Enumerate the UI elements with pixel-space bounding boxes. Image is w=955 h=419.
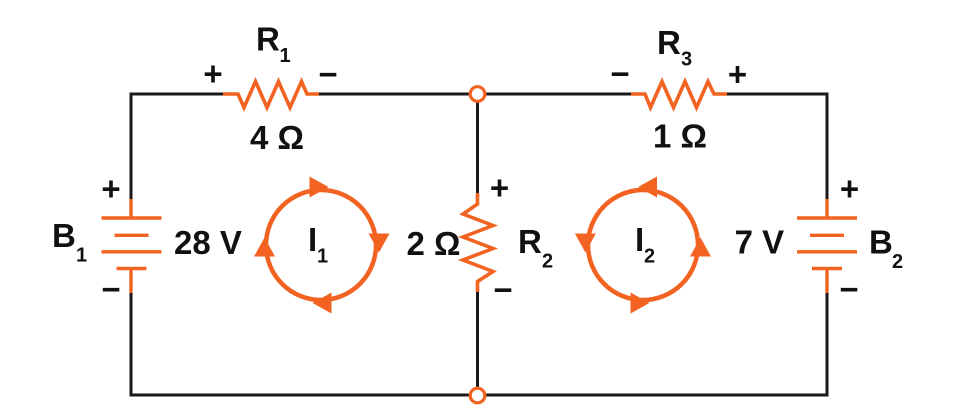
wire top-middle-right segment	[485, 93, 631, 96]
svg-text:I: I	[635, 221, 644, 258]
R1 plus sign	[203, 55, 222, 92]
B2 minus sign	[839, 271, 858, 308]
svg-text:28 V: 28 V	[174, 224, 242, 261]
wire right vertical bottom	[826, 293, 829, 397]
svg-text:B: B	[869, 224, 893, 261]
wire top-left segment	[131, 93, 223, 96]
svg-text:+: +	[840, 170, 859, 207]
svg-text:2: 2	[644, 246, 655, 268]
wire top-middle-left segment	[319, 93, 470, 96]
label B1	[52, 217, 87, 267]
svg-text:+: +	[728, 56, 747, 93]
label I2	[635, 221, 655, 268]
svg-text:R: R	[657, 24, 681, 61]
R2 value 2 ohm	[407, 225, 461, 262]
svg-text:3: 3	[681, 49, 692, 71]
wire left vertical top	[130, 93, 133, 200]
label R3	[657, 24, 692, 71]
label R1	[256, 21, 291, 68]
B1 plus sign	[101, 170, 120, 207]
svg-text:+: +	[101, 170, 120, 207]
wire middle vertical top	[476, 101, 479, 193]
R3 plus sign	[728, 56, 747, 93]
battery B2	[797, 199, 857, 293]
svg-text:2 Ω: 2 Ω	[407, 225, 461, 262]
svg-text:I: I	[308, 221, 317, 258]
label R2	[518, 223, 553, 273]
resistor R2	[463, 193, 493, 292]
node top junction	[470, 87, 485, 102]
R3 minus sign	[610, 55, 629, 92]
wire top-right segment	[727, 94, 827, 199]
mesh current loop I2 (counterclockwise)	[575, 177, 711, 314]
svg-text:−: −	[839, 271, 858, 308]
B1 value 28 V	[174, 224, 242, 261]
label I1	[308, 221, 328, 268]
svg-text:4 Ω: 4 Ω	[250, 119, 304, 156]
svg-text:+: +	[490, 169, 509, 206]
svg-text:−: −	[610, 55, 629, 92]
node bottom junction	[470, 388, 485, 403]
svg-text:−: −	[493, 271, 512, 308]
resistor R3	[631, 82, 727, 108]
wire left vertical bottom	[130, 293, 133, 397]
B2 plus sign	[840, 170, 859, 207]
R1 value 4 ohm	[250, 119, 304, 156]
svg-text:R: R	[518, 223, 542, 260]
resistor R1	[223, 82, 319, 108]
svg-text:1: 1	[280, 45, 291, 67]
wire bottom segment	[130, 394, 828, 397]
svg-text:1: 1	[317, 246, 328, 268]
label B2	[869, 224, 903, 274]
wire middle vertical bottom	[476, 292, 479, 389]
R1 minus sign	[318, 56, 337, 93]
svg-text:+: +	[203, 55, 222, 92]
svg-text:1: 1	[76, 245, 87, 267]
mesh current loop I1 (clockwise)	[254, 177, 390, 314]
svg-text:B: B	[52, 217, 76, 254]
R2 plus sign	[490, 169, 509, 206]
svg-text:−: −	[318, 56, 337, 93]
R3 value 1 ohm	[653, 118, 707, 155]
B2 value 7 V	[735, 224, 785, 261]
battery B1	[102, 199, 162, 293]
R2 minus sign	[493, 271, 512, 308]
B1 minus sign	[101, 271, 120, 308]
svg-text:R: R	[256, 21, 280, 58]
svg-text:−: −	[101, 271, 120, 308]
svg-text:2: 2	[542, 251, 553, 273]
svg-text:2: 2	[892, 251, 903, 273]
svg-text:1 Ω: 1 Ω	[653, 118, 707, 155]
svg-text:7 V: 7 V	[735, 224, 785, 261]
